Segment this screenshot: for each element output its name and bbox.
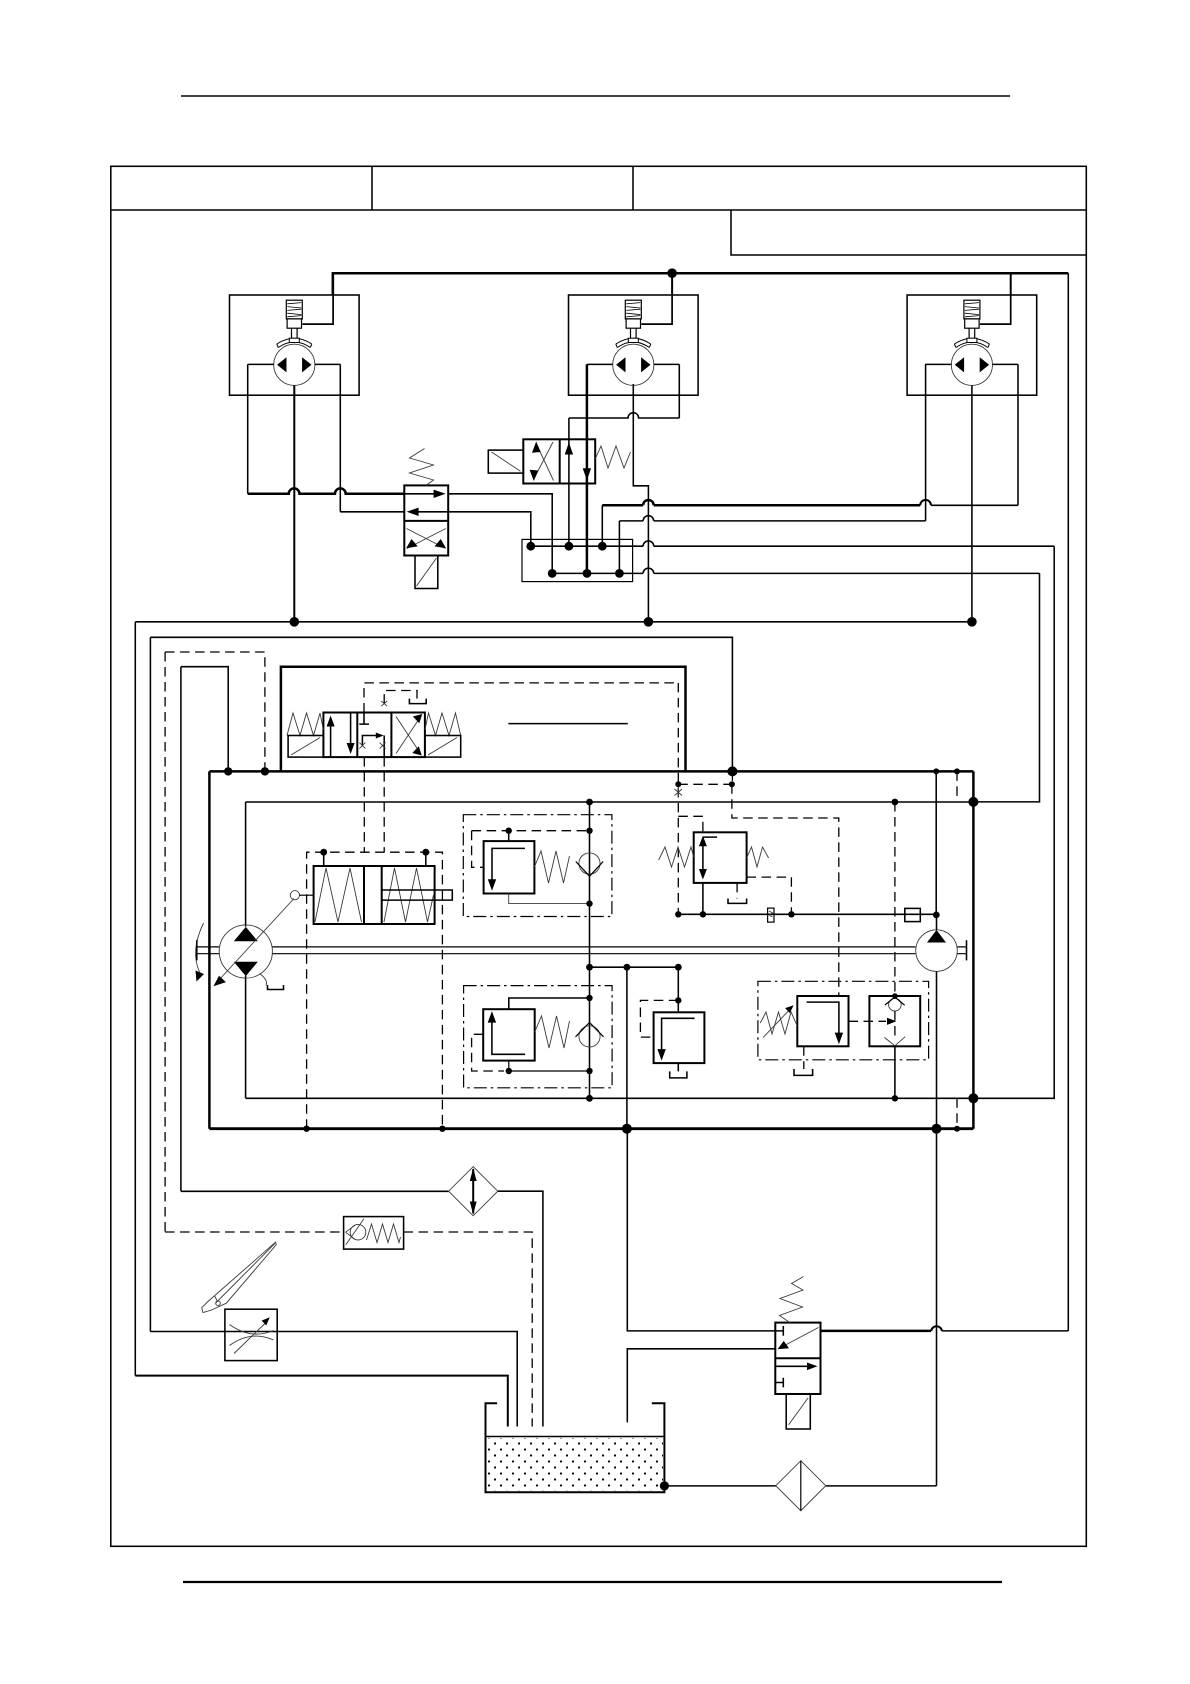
- node loop top / pilot riser: [892, 799, 899, 806]
- drain rail 2: [150, 637, 732, 1331]
- lower check valve: [579, 1026, 600, 1047]
- charge pump shaft stub: [957, 947, 966, 954]
- node gallery/tank drop: [624, 964, 631, 971]
- title cell divider 1: [371, 166, 373, 210]
- pump internal loop left legs: [245, 802, 247, 1098]
- node bus2/line B: [615, 569, 624, 578]
- prop valve solenoid left: [288, 736, 323, 758]
- right riser from rail: [1067, 273, 1069, 1331]
- swash adjust arc arrow: [196, 923, 204, 972]
- control gallery line: [678, 913, 936, 915]
- V1 pos1 flow arrows: [404, 493, 441, 495]
- adjustable restrictor: [225, 1309, 277, 1360]
- charge pump suction line: [826, 1129, 937, 1486]
- wire M1 left to V1 (delivery) with jumps: [248, 488, 405, 493]
- page top rule: [181, 95, 1010, 97]
- node loop bottom right: [968, 1093, 978, 1103]
- M2 right port line: [678, 364, 680, 418]
- flushing valve spring: [780, 1277, 804, 1323]
- manifold block: [522, 539, 633, 581]
- pressure switch to tank: [404, 1232, 533, 1427]
- pilot line to pressure switch: [165, 1231, 344, 1233]
- pilot branch to vent bracket: [384, 691, 417, 704]
- flushing valve pos1: [775, 1326, 783, 1336]
- manifold lower bus: [552, 572, 1039, 574]
- lower relief supply link: [509, 998, 590, 1009]
- node block top small 1: [933, 768, 939, 774]
- DFR spring right: [747, 847, 769, 867]
- node M3 case / return rail end: [967, 617, 977, 627]
- node gallery/relief drop: [675, 964, 682, 971]
- top supply rail: [333, 273, 1069, 295]
- node bus2/M2: [583, 569, 592, 578]
- DFR compensator valve: [694, 832, 747, 883]
- M1 right port line: [339, 364, 341, 511]
- manifold upper bus: [531, 545, 1054, 547]
- servo rod: [382, 890, 453, 900]
- tank pipe from flushing valve: [627, 1349, 775, 1423]
- fan motor M3: [907, 273, 1037, 395]
- case drain gallery line: [590, 966, 679, 968]
- boost relief spring: [760, 1012, 797, 1034]
- node pilot stub / bus: [954, 1126, 960, 1132]
- lower relief drain link: [509, 1061, 590, 1071]
- upper relief valve: [508, 831, 510, 841]
- prop valve cell3 crossed arrows: [396, 716, 421, 754]
- solenoid valve V2 body: [523, 439, 595, 483]
- flushing valve solenoid: [786, 1394, 810, 1429]
- prop valve cell1 arrows: [331, 713, 351, 758]
- M1 case line: [293, 385, 295, 621]
- pump internal loop top: [246, 801, 974, 803]
- M1 left port line: [247, 364, 249, 493]
- charge pump out: [936, 971, 938, 1128]
- pressure line A (pump to motors): [601, 505, 603, 546]
- node pilot/riser: [586, 828, 592, 834]
- case drain left riser: [181, 667, 228, 1192]
- node drain link L: [506, 1068, 512, 1074]
- node rail/motor2 feed: [667, 268, 677, 278]
- upper relief drain link: [509, 894, 590, 904]
- lower relief spring: [535, 1016, 570, 1048]
- pump variable arrow: [219, 899, 295, 981]
- node drain/riser: [586, 900, 592, 906]
- node bus1/pressure line: [598, 542, 607, 551]
- drawing frame: [111, 166, 1087, 1546]
- upper combi valve dash-dot box: [463, 815, 612, 917]
- node bus2: [548, 569, 557, 578]
- proportional control valve body: [323, 713, 425, 758]
- M3 left port line: [925, 364, 927, 521]
- cooler to tank: [498, 1191, 543, 1426]
- pilot drops to servo: [364, 757, 384, 852]
- lower combi pilot dashed: [472, 1034, 504, 1071]
- main pump (variable, bidirectional): [219, 925, 272, 978]
- boost riser: [935, 771, 937, 915]
- upper relief spring: [534, 851, 569, 883]
- V2 solenoid: [488, 450, 523, 473]
- wire V1 out top to manifold: [448, 494, 552, 574]
- orifice 2: [905, 908, 921, 921]
- prop valve spring left: [287, 713, 323, 736]
- upper combi pilot dashed: [472, 831, 590, 868]
- V2 straight arrows (right cell): [565, 443, 573, 455]
- prop valve cell2 regulating centre: [359, 713, 369, 725]
- node tank drop / bus: [622, 1124, 632, 1134]
- servo cylinder: [314, 866, 435, 924]
- wire into valve V2 and through to manifold: [568, 418, 570, 546]
- V2 crossed arrows (left cell): [534, 442, 554, 481]
- boost relief drain: [803, 1046, 805, 1069]
- line D down right side: [973, 573, 1039, 802]
- upper check valve: [579, 853, 600, 874]
- node pilot / block top: [261, 767, 269, 775]
- DFR pilot right branch: [747, 877, 792, 914]
- charge pump: [916, 930, 958, 972]
- title sub-box right: [731, 210, 1086, 255]
- node M2 case / return rail: [644, 617, 654, 627]
- node servo pilot L: [320, 849, 327, 856]
- node supply/riser: [586, 995, 592, 1001]
- DFR drain: [736, 883, 738, 899]
- title cell divider 2: [632, 166, 634, 210]
- servo piston: [364, 866, 382, 924]
- wire M1 right to V1: [340, 511, 404, 513]
- node lp relief pilot: [675, 997, 681, 1003]
- low pressure relief (centre): [677, 967, 679, 1012]
- tank drop line: [626, 967, 628, 1128]
- DFR out to gallery: [702, 883, 704, 914]
- node charge out / bus: [932, 1124, 942, 1134]
- node check/loop: [892, 1095, 898, 1101]
- V2 spring (right): [595, 446, 630, 468]
- node servo box / bus R: [439, 1126, 445, 1132]
- label rule inside housing: [508, 723, 627, 725]
- DFR compensator pilot net: [677, 683, 679, 914]
- prop valve spring right: [425, 713, 461, 736]
- solenoid valve V1 body: [404, 485, 448, 555]
- title row divider: [111, 209, 1087, 211]
- return line to cooler: [181, 1190, 449, 1192]
- drive shaft: [197, 947, 220, 954]
- node pilot/supply: [506, 828, 512, 834]
- node riser/loop bottom: [586, 1095, 593, 1102]
- boost relief valve: [797, 996, 848, 1046]
- servo pilot box (dashed): [307, 852, 443, 1128]
- tank: [486, 1403, 665, 1492]
- strainer to tank: [664, 1485, 775, 1487]
- return rail line to tank: [135, 1376, 508, 1427]
- line C down right side: [973, 546, 1054, 1098]
- hydraulic pump block boundary: [209, 770, 973, 773]
- check valve to loop: [894, 1046, 896, 1099]
- node M1 case / return rail: [290, 617, 300, 627]
- bus to flushing valve: [627, 1129, 775, 1331]
- prop valve solenoid right: [425, 736, 461, 758]
- V1 spring (top): [410, 449, 434, 486]
- servo link pivot: [290, 891, 299, 900]
- M2 case line: [633, 384, 648, 622]
- anti-cavitation check valve: [869, 996, 920, 1046]
- vent bracket: [409, 699, 426, 704]
- pilot stub top right: [956, 771, 958, 802]
- pilot line valve to LS rail: [364, 683, 678, 713]
- M3 right port line: [1017, 364, 1019, 505]
- drain line through restrictor: [150, 1332, 517, 1427]
- node gallery/riser: [586, 964, 593, 971]
- V1 solenoid: [415, 556, 438, 589]
- node loop top right: [968, 797, 978, 807]
- fan motor M2: [569, 273, 699, 395]
- oil cooler: [449, 1167, 498, 1216]
- boost relief group dash-dot box: [758, 981, 929, 1060]
- check/relief riser (upper): [589, 802, 591, 1098]
- pump internal loop bottom: [246, 1097, 974, 1099]
- servo spring right: [384, 868, 434, 922]
- pilot dashed left riser: [165, 652, 265, 1232]
- page bottom rule: [183, 1581, 1002, 1583]
- oil level gauge: [202, 1242, 276, 1312]
- return rail 1: [135, 622, 972, 1376]
- node bus1/V2: [565, 542, 574, 551]
- node servo pilot R: [422, 849, 429, 856]
- pilot control housing (upper box): [281, 667, 686, 772]
- wire M2 right to valve with jump: [569, 413, 679, 418]
- line B (return): [618, 521, 620, 574]
- fan motor M1: [229, 273, 359, 395]
- pump case drain: [260, 974, 267, 986]
- DFR spring left: [659, 847, 694, 867]
- node loop top / check riser: [586, 799, 593, 806]
- node drain link R: [586, 1068, 592, 1074]
- flushing valve body: [775, 1323, 820, 1394]
- M3 case line: [971, 385, 973, 621]
- V1 pos2 crossed arrows: [407, 529, 446, 549]
- lp relief drain: [677, 1063, 679, 1071]
- pilot stub bottom right: [956, 1098, 958, 1128]
- node block top small 2: [954, 768, 960, 774]
- node bus1: [526, 542, 535, 551]
- node drain / block top: [224, 767, 232, 775]
- tank suction outlet: [660, 1481, 669, 1490]
- suction strainer: [776, 1461, 826, 1511]
- flushing valve pos2: [775, 1365, 812, 1367]
- node rail2 / block top: [727, 766, 737, 776]
- wire V1 out bottom to manifold: [448, 512, 531, 546]
- servo spring left: [315, 868, 362, 922]
- lower relief valve: [483, 1009, 535, 1060]
- node servo box / bus L: [303, 1126, 309, 1132]
- lower combi valve dash-dot box: [464, 986, 612, 1088]
- pressure switch: [344, 1217, 404, 1250]
- M2 left port line (through valve): [586, 364, 589, 573]
- pilot riser to low-pressure valve: [894, 802, 896, 995]
- flushing valve out (to fan rail riser): [821, 1330, 932, 1333]
- orifice 1: [768, 908, 774, 922]
